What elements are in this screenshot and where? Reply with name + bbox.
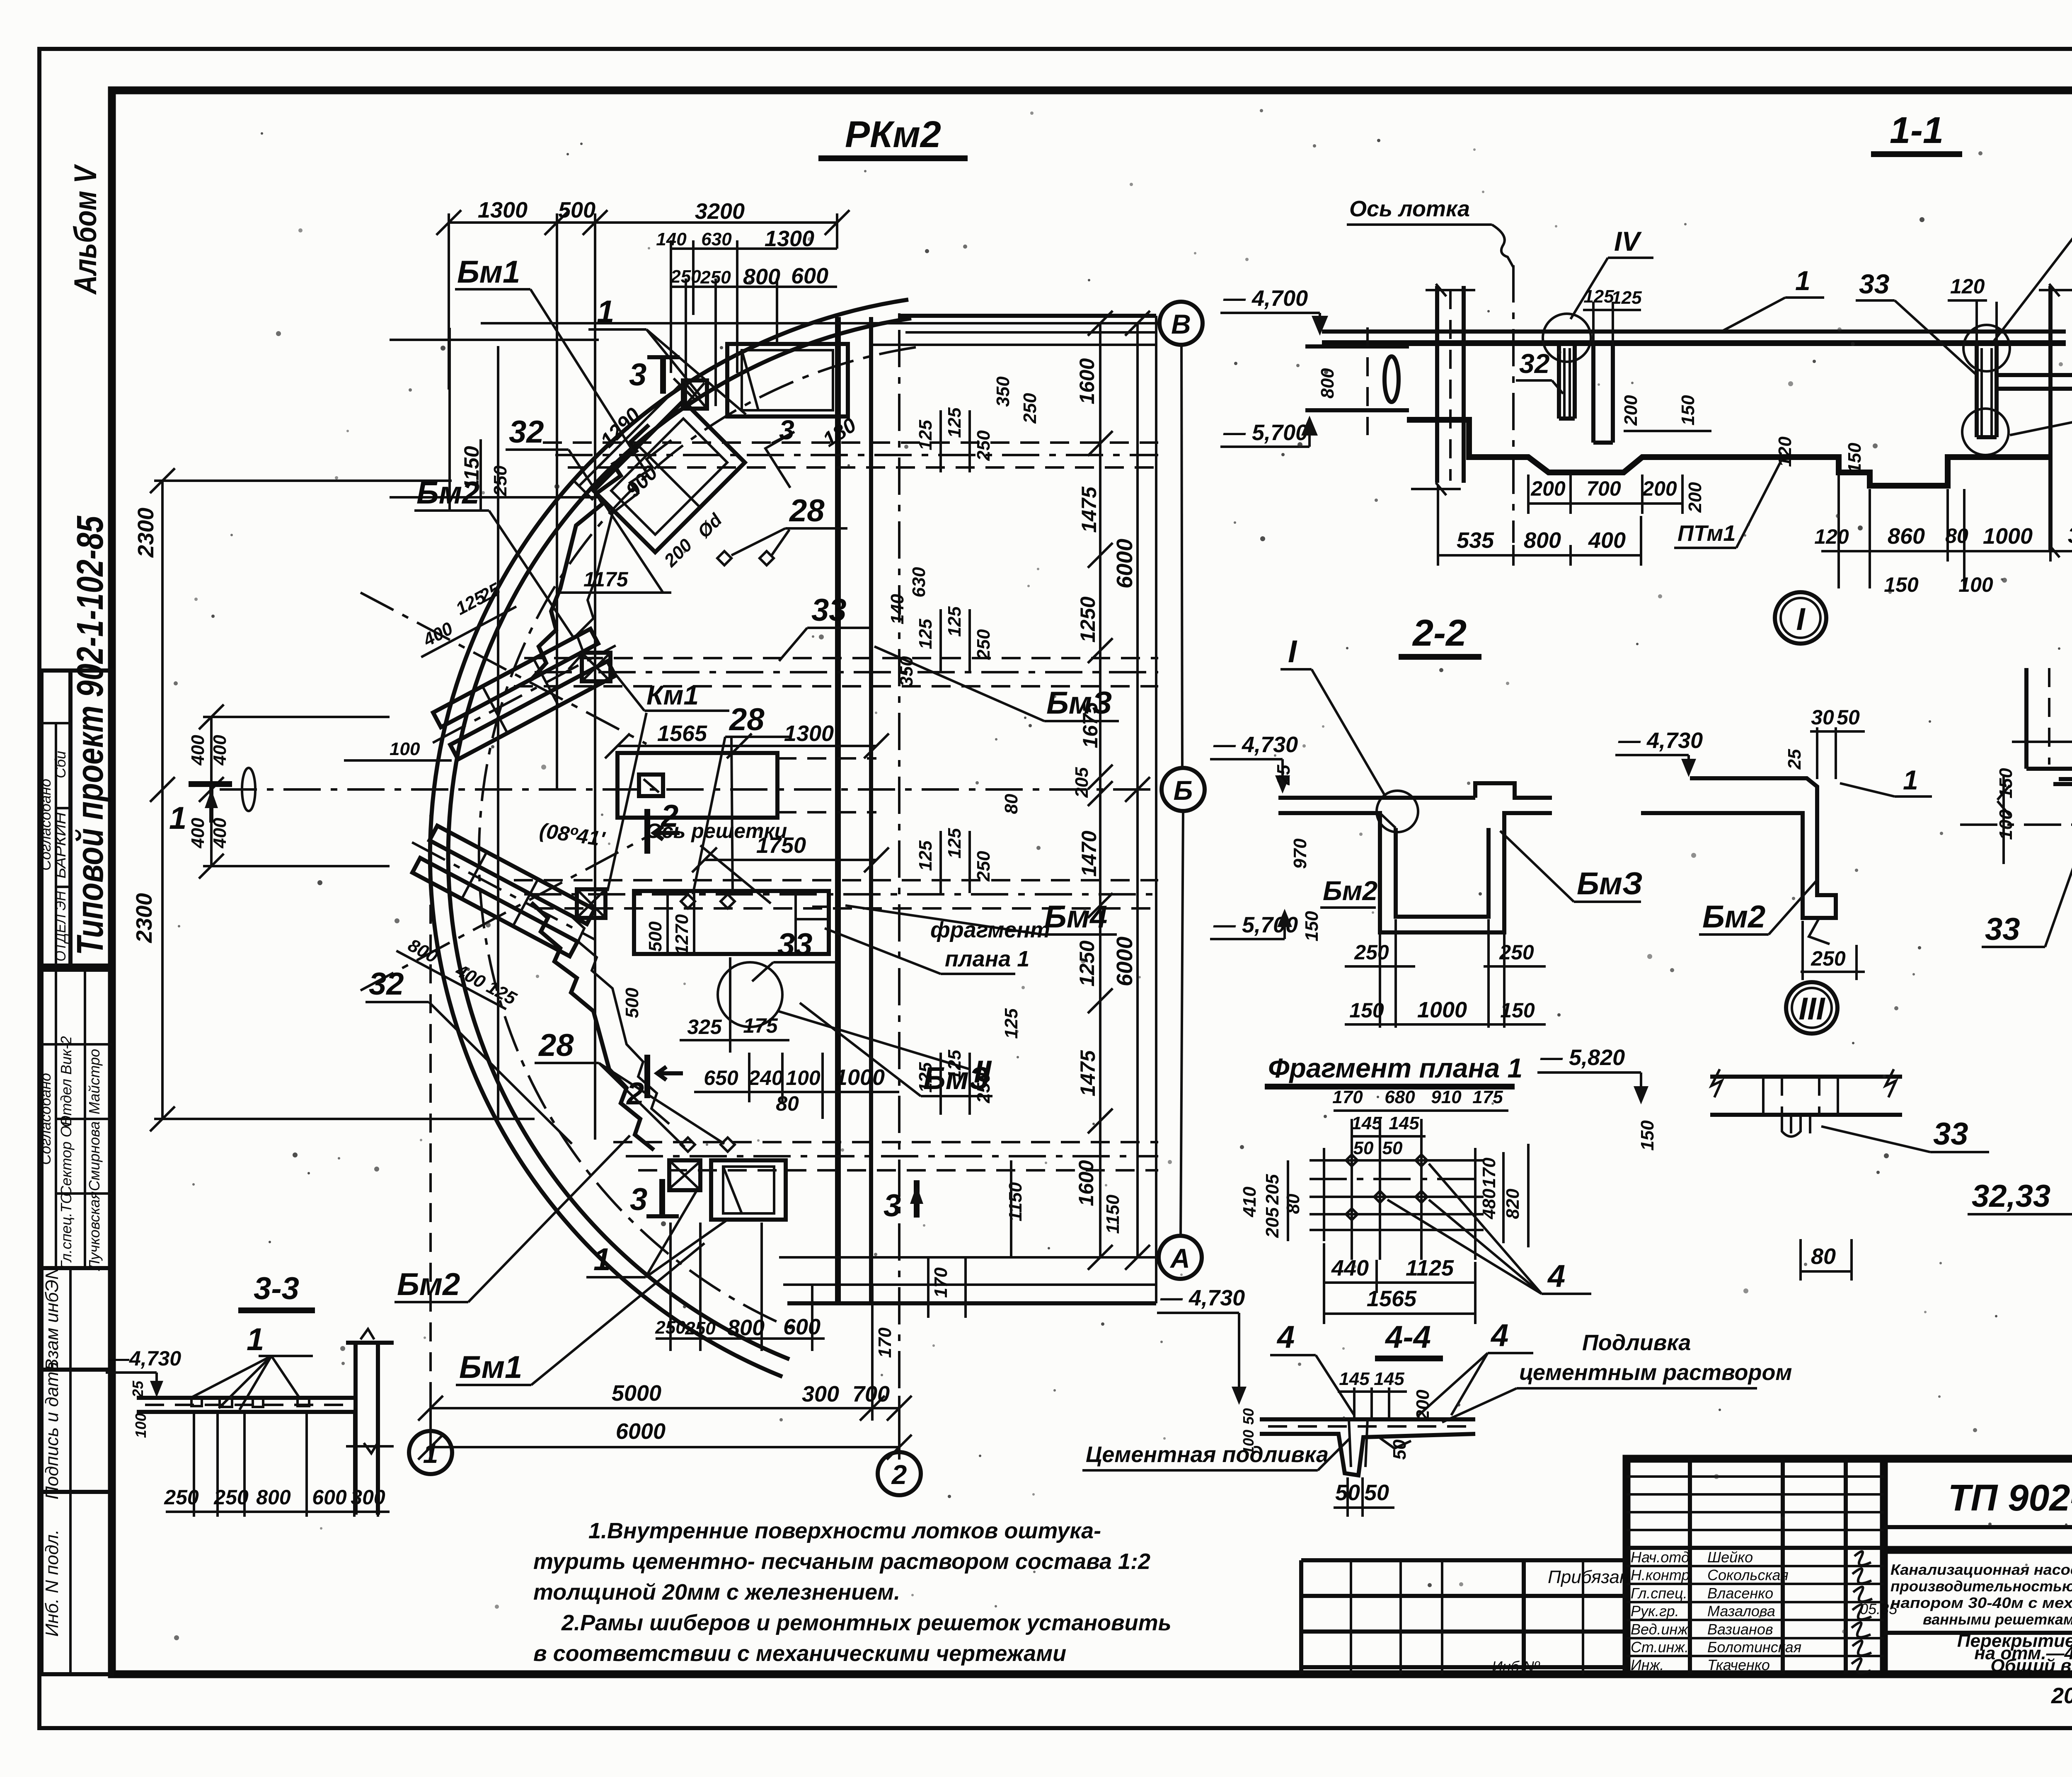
- svg-text:800: 800: [1524, 528, 1561, 553]
- svg-text:250: 250: [700, 267, 731, 288]
- plan bottom window opening: [711, 1160, 786, 1220]
- svg-text:— 4,700: — 4,700: [1223, 286, 1308, 311]
- svg-text:Сектор ОВ: Сектор ОВ: [58, 1116, 75, 1196]
- svg-text:I: I: [1288, 634, 1297, 669]
- bottom dim chain 120 860 80 1000 300: [1814, 460, 2072, 596]
- svg-text:140: 140: [887, 594, 908, 625]
- sidebar cell Взам.инв.№: [41, 1266, 112, 1371]
- svg-text:180: 180: [818, 413, 860, 452]
- dim 1565 1300 above rect A: [605, 721, 889, 758]
- diamond nodes 28: [681, 551, 774, 1152]
- label Бм4 right: [845, 899, 1117, 934]
- plan inner wall arc: [448, 318, 911, 1359]
- label Ось решетки: [646, 819, 787, 903]
- upper-left angled dims 400 125 25: [405, 576, 516, 657]
- svg-text:325: 325: [687, 1015, 722, 1039]
- leader II from circle: [778, 1011, 992, 1089]
- album label: [68, 164, 103, 295]
- grid line 2 vertical: [898, 307, 900, 1452]
- label 33 leader: [1856, 269, 1977, 375]
- svg-text:33: 33: [777, 927, 813, 962]
- svg-text:250: 250: [973, 1072, 994, 1104]
- svg-text:Вед.инж: Вед.инж: [1631, 1621, 1689, 1638]
- svg-text:1470: 1470: [1077, 830, 1101, 876]
- right T rib: [1962, 325, 2010, 455]
- label БмЗ right: [874, 646, 1119, 721]
- plan bottom wall band: [783, 1285, 1156, 1303]
- svg-text:1565: 1565: [657, 721, 707, 746]
- label IV left: [1571, 226, 1653, 319]
- svg-text:250: 250: [490, 465, 511, 496]
- svg-text:125: 125: [1583, 286, 1614, 307]
- svg-text:3: 3: [630, 1182, 647, 1217]
- svg-text:1000: 1000: [1983, 524, 2033, 549]
- svg-text:1600: 1600: [1075, 1160, 1098, 1206]
- svg-text:I: I: [1796, 602, 1806, 637]
- svg-text:Км1: Км1: [646, 680, 699, 710]
- svg-text:120: 120: [1775, 436, 1795, 467]
- svg-text:200: 200: [1642, 477, 1677, 500]
- svg-text:6000: 6000: [1112, 937, 1137, 986]
- lower-left angled dims 800 400 125: [396, 931, 520, 1011]
- svg-text:1125: 1125: [1406, 1256, 1454, 1281]
- svg-text:Рук.гр.: Рук.гр.: [1631, 1603, 1679, 1620]
- svg-text:ОТДЕЛ ЭН: ОТДЕЛ ЭН: [52, 891, 69, 961]
- section 3-3 leader 1: [191, 1322, 313, 1410]
- svg-text:50: 50: [1382, 1138, 1403, 1158]
- svg-text:32: 32: [1519, 348, 1550, 379]
- level -4,730 section 2-2: [1210, 732, 1298, 794]
- svg-text:350: 350: [896, 656, 917, 687]
- svg-text:400: 400: [1588, 528, 1626, 553]
- svg-text:1: 1: [169, 801, 186, 836]
- svg-text:Ткаченко: Ткаченко: [1707, 1656, 1770, 1673]
- svg-text:250: 250: [1354, 941, 1389, 964]
- svg-text:125: 125: [915, 840, 936, 871]
- plan outer wall arc: [430, 300, 908, 1377]
- dashed channel band 4: [613, 1142, 1158, 1170]
- svg-text:производительностью 400-2000 м: производительностью 400-2000 м3/ч: [1890, 1578, 2072, 1595]
- left dimension 400 400: [188, 705, 390, 879]
- label БмЗ lower: [800, 1003, 992, 1096]
- svg-text:500: 500: [645, 921, 666, 952]
- label I leader to detail: [1280, 634, 1386, 798]
- svg-text:33: 33: [1933, 1116, 1968, 1152]
- svg-text:Взам инбЭN: Взам инбЭN: [42, 1266, 62, 1371]
- section 4-4 left small dims: [1240, 1408, 1257, 1455]
- svg-text:Гл.спец.: Гл.спец.: [1631, 1585, 1687, 1602]
- svg-text:1300: 1300: [784, 721, 834, 746]
- svg-text:100: 100: [1958, 573, 1993, 596]
- circled III: [1786, 982, 1837, 1034]
- svg-text:III: III: [1798, 991, 1825, 1026]
- svg-text:200: 200: [1621, 395, 1641, 426]
- fragment plan leader 4: [1387, 1164, 1591, 1294]
- label Бм1 bottom: [456, 1243, 704, 1385]
- svg-text:Ød: Ød: [694, 509, 726, 542]
- svg-text:970: 970: [1290, 838, 1310, 869]
- section 2-2 channel profile: [1278, 783, 1552, 932]
- svg-text:250: 250: [1811, 947, 1846, 970]
- section 4-4 leader 4 left: [1270, 1319, 1354, 1415]
- label III right: [2010, 374, 2072, 435]
- label 1 on detail: [1840, 765, 1932, 797]
- handwritten archive number: [2051, 1683, 2072, 1708]
- section 4-4 dims 145 145: [1338, 1369, 1407, 1417]
- dim 170 bottom near А: [875, 1327, 895, 1358]
- svg-text:Ось лотка: Ось лотка: [1349, 196, 1470, 221]
- svg-text:6000: 6000: [616, 1419, 666, 1444]
- top dimension chain 1300 500 3200: [436, 198, 850, 1140]
- detail circle 33 on rect B: [718, 962, 782, 1027]
- svg-text:630: 630: [701, 229, 732, 249]
- svg-text:Н.контр.: Н.контр.: [1631, 1566, 1694, 1583]
- grid line А: [779, 1256, 1159, 1259]
- svg-text:800: 800: [727, 1315, 765, 1340]
- svg-text:170: 170: [931, 1267, 951, 1298]
- svg-text:— 5,820: — 5,820: [1540, 1045, 1625, 1070]
- label Бм2 top: [414, 475, 574, 638]
- svg-text:100: 100: [1996, 809, 2016, 840]
- svg-text:А: А: [1169, 1243, 1190, 1273]
- svg-text:1.Внутренние поверхности лот: 1.Внутренние поверхности лотков оштука-: [588, 1518, 1101, 1543]
- svg-text:400: 400: [188, 735, 208, 766]
- dashed channel band 3: [514, 880, 1158, 908]
- svg-text:700: 700: [1586, 477, 1621, 500]
- svg-text:Бм2: Бм2: [416, 475, 479, 511]
- svg-text:100: 100: [132, 1413, 149, 1438]
- grid bubble Б: [1162, 768, 1205, 811]
- svg-text:Подливка: Подливка: [1582, 1330, 1691, 1355]
- bottom dims 5000 300 700: [418, 1285, 912, 1421]
- Ось лотка label: [1347, 196, 1513, 267]
- section 4-4 dims 200 50: [1334, 1390, 1433, 1517]
- label Бм2 on middle detail: [1699, 879, 1818, 934]
- svg-text:145: 145: [1351, 1113, 1382, 1133]
- svg-text:28: 28: [729, 702, 765, 737]
- plan top small hatch square: [683, 380, 707, 409]
- svg-text:3200: 3200: [695, 199, 745, 224]
- wavy inner wall lower: [531, 903, 669, 1150]
- grid line В: [481, 322, 1159, 324]
- label Бм1 top: [455, 254, 646, 472]
- X-square anchor Км1 lower: [577, 889, 605, 918]
- fragment plan left rotated dims: [1239, 1160, 1303, 1241]
- svg-text:—4,730: —4,730: [108, 1347, 181, 1370]
- angled grate zigzag mark 3: [765, 413, 860, 488]
- svg-text:Бм2: Бм2: [397, 1267, 460, 1302]
- svg-text:1: 1: [597, 294, 614, 329]
- fragment plan title: [1265, 1053, 1523, 1087]
- level -4,730 section 4-4: [1157, 1286, 1247, 1405]
- svg-text:Власенко: Власенко: [1707, 1585, 1773, 1602]
- svg-text:2300: 2300: [133, 508, 158, 558]
- sidebar cell Инв.№ подл.: [41, 1492, 112, 1674]
- svg-text:4: 4: [1547, 1259, 1565, 1294]
- svg-text:4: 4: [1276, 1319, 1295, 1355]
- svg-text:Бм1: Бм1: [457, 254, 520, 290]
- svg-text:800: 800: [743, 264, 780, 289]
- svg-text:125: 125: [1611, 288, 1642, 308]
- plan thick interior wall verticals: [838, 316, 1156, 1303]
- dim 1475 1150 annotation upper window: [559, 568, 671, 593]
- svg-text:Инж.: Инж.: [1631, 1656, 1664, 1673]
- svg-text:200: 200: [1530, 477, 1566, 500]
- small dims 125 250 col3: [915, 794, 1021, 893]
- right wall 1-1: [2024, 284, 2072, 557]
- svg-text:300: 300: [2068, 523, 2072, 548]
- svg-text:Нач.отд: Нач.отд: [1631, 1549, 1690, 1566]
- svg-text:1: 1: [1903, 765, 1918, 795]
- svg-text:125: 125: [944, 606, 965, 637]
- right dimension chain line 2 6000+6000: [1112, 311, 1150, 1270]
- svg-text:80: 80: [776, 1092, 799, 1115]
- svg-text:3: 3: [779, 414, 794, 445]
- detail circle I on 2-2: [1377, 791, 1418, 832]
- sidebar block2 approval table: [37, 970, 112, 1271]
- svg-text:БмЗ: БмЗ: [1046, 685, 1112, 721]
- svg-text:IV: IV: [1614, 226, 1642, 257]
- svg-text:150: 150: [1844, 443, 1865, 473]
- svg-text:28: 28: [538, 1028, 574, 1063]
- svg-text:125: 125: [944, 1050, 965, 1080]
- svg-text:80: 80: [1811, 1244, 1836, 1269]
- svg-text:150: 150: [1637, 1120, 1658, 1151]
- left channel lower pair: [399, 819, 608, 963]
- label 28 middle: [693, 702, 789, 894]
- svg-text:50: 50: [1240, 1408, 1257, 1425]
- svg-text:125: 125: [915, 420, 936, 450]
- svg-text:Шейко: Шейко: [1707, 1549, 1753, 1566]
- svg-text:Инб.Nº: Инб.Nº: [1492, 1658, 1540, 1675]
- section 1-1 bottom profile: [1407, 420, 2050, 486]
- svg-text:80: 80: [1001, 794, 1021, 814]
- svg-text:Прибязан: Прибязан: [1548, 1567, 1629, 1587]
- svg-text:250: 250: [164, 1486, 199, 1509]
- level mark -5,700: [1220, 416, 1318, 447]
- detail circle IV left: [1543, 314, 1591, 362]
- svg-text:150: 150: [1349, 999, 1384, 1022]
- svg-text:РКм2: РКм2: [845, 114, 941, 155]
- svg-text:100: 100: [390, 739, 420, 759]
- svg-text:600: 600: [791, 264, 828, 288]
- section 1-1 title: [1871, 110, 1962, 154]
- section 3-3 level -4,730: [106, 1347, 181, 1438]
- middle rectangle grate A: [617, 753, 876, 818]
- section 3-3 slab: [137, 1398, 356, 1412]
- svg-text:600: 600: [312, 1486, 347, 1509]
- level -5,700 section 2-2: [1210, 909, 1298, 939]
- svg-text:Согласобано: Согласобано: [37, 779, 54, 871]
- bottom dims 250 250 800 600: [655, 1223, 825, 1351]
- svg-text:Гл.спец.ТО: Гл.спец.ТО: [58, 1192, 75, 1269]
- svg-text:140: 140: [656, 229, 687, 249]
- svg-text:1475: 1475: [1076, 1050, 1099, 1096]
- section 1-1 left pipe: [1305, 327, 1409, 435]
- small dims 125 250 col4: [915, 1008, 1021, 1115]
- grid bubble А: [1159, 1236, 1202, 1279]
- svg-text:200: 200: [1413, 1390, 1433, 1421]
- svg-text:33: 33: [1985, 912, 2020, 947]
- right ledge lines: [1997, 375, 2072, 389]
- svg-text:2-2: 2-2: [1412, 613, 1467, 654]
- section mark 1 left: [169, 784, 232, 836]
- level mark -4,700: [1220, 286, 1328, 336]
- svg-text:Типовой проект 902-1-102-85: Типовой проект 902-1-102-85: [70, 515, 111, 955]
- svg-text:Смирнова: Смирнова: [86, 1121, 103, 1191]
- svg-text:Мазалова: Мазалова: [1707, 1603, 1775, 1620]
- label 120 top: [1948, 275, 1997, 346]
- svg-text:1250: 1250: [1076, 596, 1099, 642]
- svg-text:240: 240: [748, 1066, 783, 1089]
- scan speckle noise: [174, 109, 2072, 1640]
- svg-text:100: 100: [786, 1066, 821, 1089]
- title block project description: [1884, 1550, 2072, 1676]
- svg-text:150: 150: [1302, 911, 1322, 942]
- svg-text:1475: 1475: [1077, 486, 1101, 533]
- dims 325 175 near band3: [680, 957, 789, 1053]
- svg-text:250: 250: [973, 430, 994, 461]
- svg-text:20732-01 12: 20732-01 12: [2051, 1683, 2072, 1708]
- svg-text:80: 80: [1945, 524, 1968, 547]
- label 32 left: [366, 966, 572, 1144]
- svg-text:1: 1: [1795, 265, 1811, 296]
- svg-text:25: 25: [1273, 765, 1294, 785]
- svg-text:Бм2: Бм2: [1702, 899, 1765, 934]
- dim chain 535 800 400: [1438, 485, 1641, 566]
- svg-text:1150: 1150: [1005, 1182, 1026, 1221]
- label ПТм1: [1674, 459, 1782, 548]
- svg-text:820: 820: [1503, 1189, 1523, 1219]
- detail Бм2 middle level -4,730: [1615, 728, 1703, 777]
- left channel upper pair: [420, 622, 628, 766]
- grid bubble 1: [409, 1431, 452, 1474]
- svg-text:Сби: Сби: [52, 751, 69, 778]
- svg-text:— 5,700: — 5,700: [1223, 420, 1308, 445]
- svg-text:Альбом V: Альбом V: [68, 164, 103, 295]
- label 32 top: [506, 414, 663, 593]
- svg-text:535: 535: [1457, 528, 1494, 553]
- svg-text:5000: 5000: [612, 1381, 661, 1406]
- section 4-4 leader 4 right: [1417, 1318, 1533, 1416]
- svg-text:Бм4: Бм4: [1044, 899, 1107, 934]
- svg-text:145: 145: [1374, 1369, 1404, 1389]
- circled detail I: [1775, 592, 1826, 644]
- svg-text:— 4,730: — 4,730: [1213, 732, 1298, 757]
- svg-text:175: 175: [743, 1014, 778, 1037]
- svg-text:145: 145: [1389, 1113, 1419, 1133]
- svg-text:50: 50: [1389, 1439, 1410, 1460]
- dim 1750: [692, 833, 889, 872]
- svg-text:175: 175: [1472, 1087, 1503, 1107]
- section 3-3 title: [238, 1271, 315, 1310]
- svg-text:32: 32: [509, 414, 544, 450]
- svg-text:500: 500: [622, 988, 642, 1018]
- wavy inner wall upper: [531, 425, 671, 680]
- dim 1150 250 lower window: [1005, 1160, 1026, 1257]
- svg-text:3: 3: [884, 1188, 901, 1223]
- svg-text:150: 150: [1996, 768, 2016, 799]
- svg-text:Ст.инж.: Ст.инж.: [1631, 1639, 1689, 1656]
- hanging rib 125x125: [1583, 286, 1642, 443]
- label 1 top with leaders: [588, 294, 746, 414]
- svg-text:32,33: 32,33: [1972, 1179, 2050, 1214]
- bottom dim 6000: [418, 1396, 912, 1460]
- svg-text:150: 150: [1678, 395, 1698, 426]
- svg-text:125: 125: [944, 407, 965, 438]
- svg-text:250: 250: [973, 851, 994, 882]
- label 28 lower: [535, 1028, 724, 1147]
- svg-text:630: 630: [909, 567, 929, 598]
- svg-text:Б: Б: [1174, 775, 1193, 806]
- fragment plan dims top: [1332, 1087, 1508, 1158]
- svg-text:4-4: 4-4: [1385, 1319, 1431, 1355]
- svg-text:250: 250: [670, 266, 701, 287]
- svg-text:Фрагмент плана 1: Фрагмент плана 1: [1268, 1053, 1523, 1083]
- dims 200 700 200: [1528, 475, 1682, 514]
- section mark 3 top pair: [629, 356, 680, 394]
- section 1-1 left wall: [1411, 284, 1475, 495]
- svg-text:1: 1: [593, 1242, 611, 1277]
- svg-text:800: 800: [256, 1486, 291, 1509]
- hanging rib 32: [1559, 346, 1575, 419]
- svg-text:205: 205: [1072, 767, 1092, 798]
- fragment plan bottom dims: [1324, 1243, 1475, 1324]
- svg-text:50: 50: [1364, 1480, 1389, 1505]
- level -5,820: [1537, 1045, 1658, 1151]
- svg-text:125: 125: [944, 828, 965, 859]
- section 3-3 right element: [346, 1329, 394, 1515]
- dashed channel band 2: [514, 658, 1158, 686]
- section 4-4 title: [1375, 1319, 1443, 1358]
- svg-text:— 4,730: — 4,730: [1160, 1286, 1245, 1310]
- svg-text:в соответствии с механическ: в соответствии с механическими чертежами: [533, 1641, 1066, 1666]
- label 33 lower: [752, 927, 837, 981]
- svg-text:700: 700: [852, 1382, 890, 1407]
- svg-text:410: 410: [1239, 1186, 1260, 1218]
- svg-text:600: 600: [783, 1315, 821, 1339]
- svg-text:650: 650: [704, 1066, 738, 1089]
- label 33 detail II: [1982, 808, 2072, 947]
- svg-text:Отдел Вик-2: Отдел Вик-2: [58, 1036, 75, 1127]
- grid bubble В: [1159, 302, 1203, 345]
- svg-text:1150: 1150: [1103, 1194, 1123, 1234]
- svg-text:250: 250: [213, 1486, 249, 1509]
- svg-text:120: 120: [1950, 275, 1985, 298]
- section mark 2 upper: [647, 799, 680, 854]
- label БмЗ on 2-2: [1500, 831, 1643, 902]
- label Подливка цементным раствором: [1442, 1330, 1792, 1422]
- svg-text:Вазианов: Вазианов: [1707, 1621, 1773, 1638]
- svg-text:400: 400: [188, 818, 208, 849]
- svg-text:Сокольская: Сокольская: [1707, 1566, 1789, 1583]
- svg-text:— 4,730: — 4,730: [1618, 728, 1703, 753]
- right dimension chain line 1: [1072, 311, 1113, 1270]
- bubble column connectors: [1181, 345, 1183, 1236]
- angled grate rectangle: [562, 368, 773, 579]
- svg-text:125: 125: [915, 619, 936, 649]
- sidebar column lines: [108, 90, 116, 1674]
- section 2-2 dims: [1273, 765, 1546, 1028]
- plan bottom small hatch square: [669, 1160, 700, 1190]
- label IV right: [1993, 194, 2072, 342]
- svg-text:Канализационная насосная станц: Канализационная насосная станция: [1890, 1561, 2072, 1578]
- svg-text:4: 4: [1490, 1318, 1508, 1353]
- svg-text:Болотинская: Болотинская: [1707, 1639, 1801, 1656]
- svg-text:250: 250: [973, 629, 994, 660]
- svg-text:1000: 1000: [1417, 997, 1467, 1022]
- svg-text:125: 125: [1001, 1008, 1021, 1039]
